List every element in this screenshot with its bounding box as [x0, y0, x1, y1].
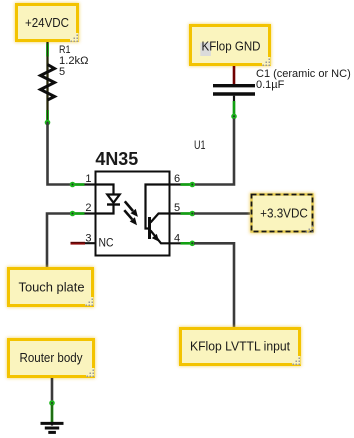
svg-text:0.1µF: 0.1µF — [256, 79, 285, 91]
light emission arrows — [124, 201, 138, 225]
capacitor C1 — [213, 86, 255, 94]
phototransistor inside U1 — [146, 185, 170, 244]
pin 2 stub — [70, 211, 96, 217]
pin number 6 — [174, 173, 180, 185]
pin 1 stub — [70, 182, 96, 188]
svg-text:4N35: 4N35 — [95, 149, 138, 169]
svg-text:6: 6 — [174, 173, 180, 185]
pin number 3 — [85, 233, 91, 245]
svg-text:+24VDC: +24VDC — [25, 16, 69, 30]
label R1 1.2kOhm 5 — [59, 44, 89, 78]
svg-text:+3.3VDC: +3.3VDC — [260, 207, 308, 221]
wire pin 4 to KFlop LVTTL input — [194, 243, 234, 327]
svg-text:KFlop GND: KFlop GND — [202, 39, 261, 53]
wire KFlop GND to C1 (maroon) — [233, 66, 236, 84]
svg-text:U1: U1 — [194, 138, 206, 152]
resistor R1 — [41, 65, 55, 101]
node +3.3VDC (selected, dashed) — [252, 195, 314, 234]
ground symbol — [41, 423, 64, 432]
pin number 4 — [174, 233, 180, 245]
node KFlop LVTTL input — [181, 329, 301, 366]
wire Router body to ground — [51, 378, 54, 403]
label C1 value — [256, 68, 351, 91]
wire +24VDC to R1 lead — [46, 42, 48, 123]
svg-text:2: 2 — [85, 202, 91, 214]
node Touch plate — [9, 269, 94, 307]
svg-text:NC: NC — [99, 237, 114, 249]
pin 5 stub — [170, 211, 196, 217]
capacitor lower stub (green) — [231, 96, 237, 119]
NC stub pin 3 — [71, 242, 96, 245]
junction dot below R1 — [45, 110, 51, 125]
svg-text:Touch plate: Touch plate — [19, 280, 85, 294]
wire pin 2 to Touch plate — [47, 214, 70, 268]
wire R1 to pin 1 — [48, 123, 71, 185]
pin number 1 — [85, 173, 91, 185]
pin 6 stub — [170, 182, 196, 188]
node KFlop GND — [191, 26, 271, 67]
svg-text:KFlop LVTTL input: KFlop LVTTL input — [190, 340, 291, 354]
ground stub (green) — [51, 405, 53, 426]
svg-text:5: 5 — [174, 202, 180, 214]
wire C1 to pin 6 — [194, 119, 234, 185]
label U1 — [194, 138, 206, 152]
optocoupler U1 4N35 body — [95, 149, 169, 256]
LED inside U1 — [96, 185, 121, 214]
NC label pin 3 — [99, 237, 114, 249]
svg-text:1: 1 — [85, 173, 91, 185]
svg-text:Router body: Router body — [20, 351, 84, 365]
node Router body — [9, 340, 95, 378]
node +24VDC — [17, 5, 79, 43]
svg-text:5: 5 — [59, 66, 65, 78]
wire pin 5 to +3.3VDC — [194, 212, 250, 215]
pin 4 stub — [170, 241, 196, 247]
pin number 5 — [174, 202, 180, 214]
pin number 2 — [85, 202, 91, 214]
junction dot above ground — [49, 400, 55, 406]
